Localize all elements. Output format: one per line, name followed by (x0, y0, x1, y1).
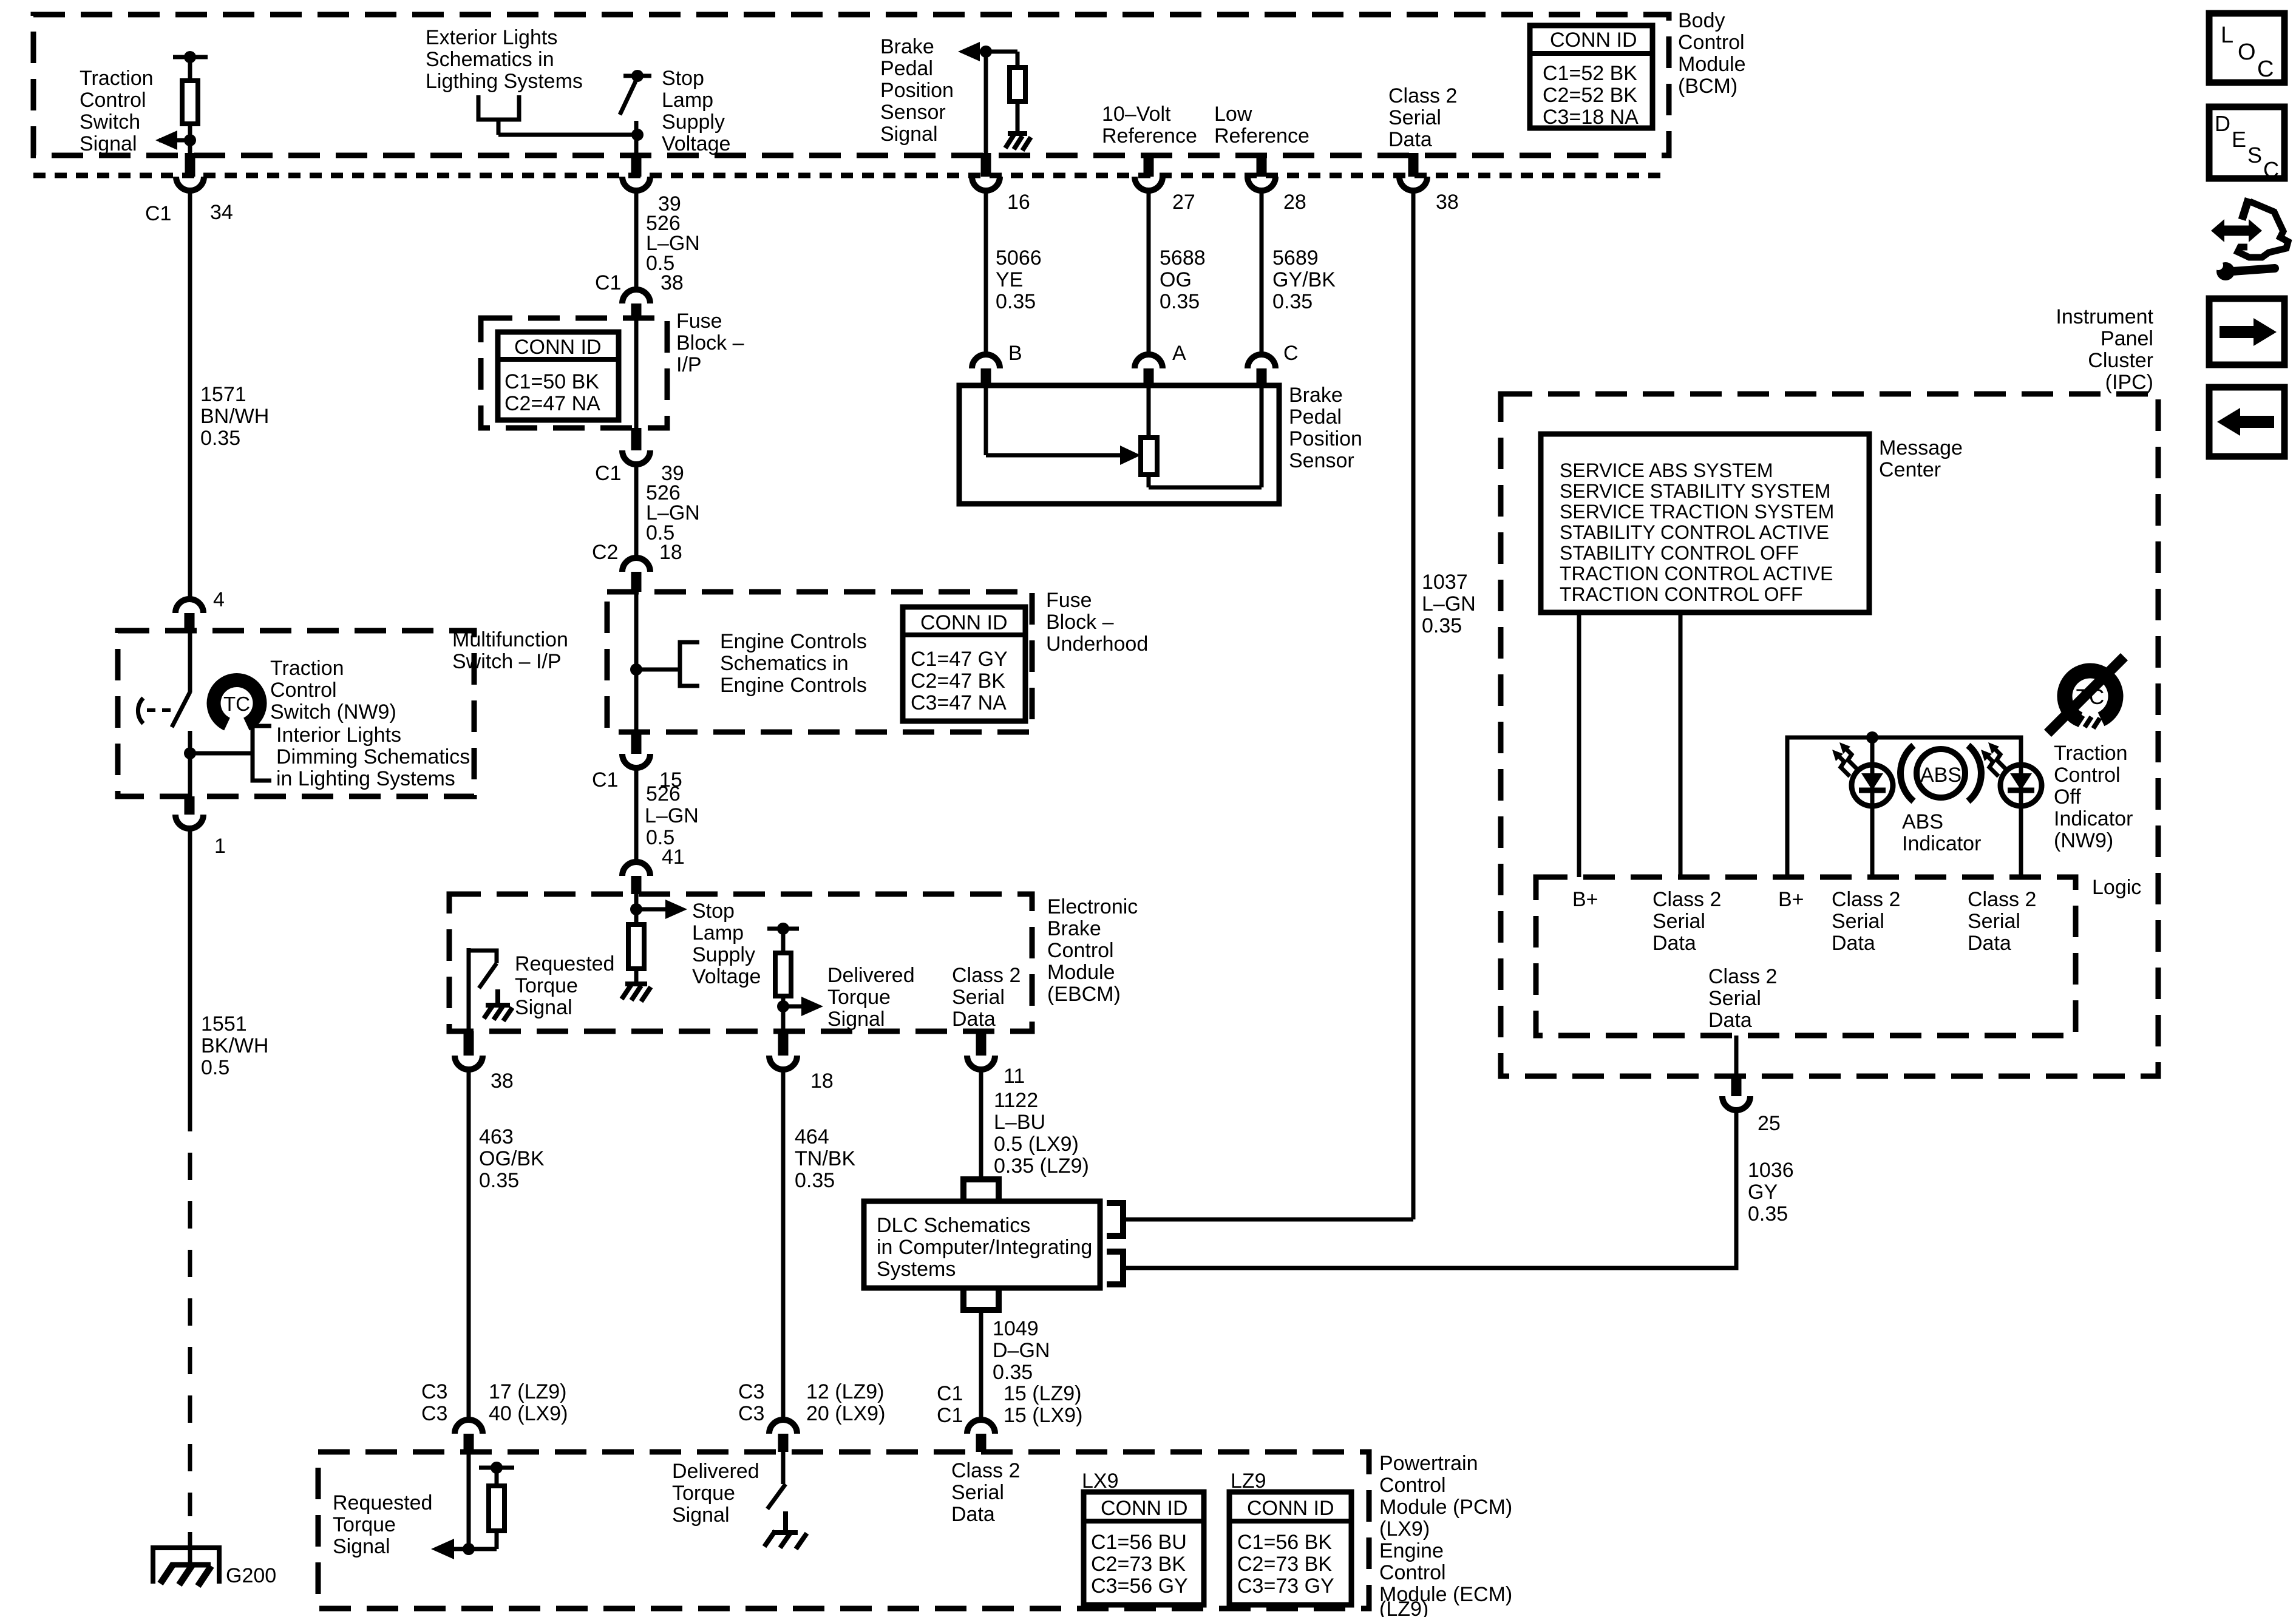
svg-text:C2: C2 (592, 541, 618, 564)
svg-text:SERVICE ABS SYSTEM: SERVICE ABS SYSTEM (1560, 459, 1773, 481)
svg-text:0.35: 0.35 (1748, 1202, 1788, 1225)
svg-text:CONN ID: CONN ID (1550, 29, 1637, 52)
label Fuse Block - I/P (676, 310, 744, 376)
svg-text:TRACTION CONTROL ACTIVE: TRACTION CONTROL ACTIVE (1560, 563, 1833, 585)
svg-text:Serial: Serial (1832, 910, 1884, 933)
svg-text:Off: Off (2054, 785, 2081, 808)
connector pin 15/15 C1 (PCM) (937, 1382, 1082, 1452)
svg-text:15 (LZ9): 15 (LZ9) (1004, 1382, 1082, 1405)
svg-text:Serial: Serial (1708, 987, 1761, 1010)
svg-text:Requested: Requested (333, 1491, 432, 1514)
svg-text:Signal: Signal (80, 132, 137, 155)
ground chassis (EBCM stop lamp) (622, 984, 651, 1002)
svg-text:Torque: Torque (672, 1482, 735, 1505)
node B+ (logic) (1572, 888, 1598, 911)
svg-text:C1: C1 (937, 1404, 963, 1427)
svg-text:BK/WH: BK/WH (201, 1034, 268, 1057)
svg-text:Signal: Signal (515, 996, 572, 1019)
wire 526 L-GN (BCM 39 to fuse block I/P) (636, 189, 700, 291)
svg-text:Indicator: Indicator (1902, 832, 1981, 855)
wire 1036 GY (IPC 25 to DLC) (1748, 1159, 1794, 1225)
arrow traction control switch signal (155, 131, 196, 150)
label Message Center (1879, 436, 1963, 481)
CONN ID table (fuse block underhood) (903, 607, 1025, 721)
wire message center class 2 serial data (1679, 612, 1683, 877)
svg-text:Schematics in: Schematics in (720, 652, 849, 675)
label Body Control Module (BCM) (1678, 9, 1746, 98)
svg-text:Lamp: Lamp (692, 921, 744, 944)
node class 2 serial data (logic left) (1652, 888, 1721, 955)
svg-text:41: 41 (662, 846, 685, 869)
connector pin A (brake pedal position sensor) (1135, 342, 1186, 385)
svg-text:SERVICE STABILITY SYSTEM: SERVICE STABILITY SYSTEM (1560, 480, 1830, 502)
wire 526 L-GN (underhood to EBCM 41) (636, 767, 699, 863)
connector pin 11 (EBCM out) (967, 1031, 1025, 1088)
icon ABS indicator (1901, 745, 1982, 801)
svg-text:Requested: Requested (515, 952, 614, 975)
svg-text:DLC Schematics: DLC Schematics (877, 1214, 1030, 1237)
arrow requested torque signal (PCM) (431, 1539, 475, 1559)
svg-text:D: D (2215, 111, 2230, 136)
label Brake Pedal Position Sensor Signal (880, 35, 954, 146)
svg-text:TC: TC (223, 693, 250, 715)
CONN ID table (BCM) (1530, 25, 1652, 129)
wire 5689 GY/BK (BCM 28 to sensor C) (1262, 189, 1336, 356)
svg-text:Data: Data (1708, 1009, 1752, 1032)
svg-text:464: 464 (795, 1125, 829, 1148)
svg-text:1122: 1122 (994, 1089, 1038, 1112)
arrows LED emission (ABS indicator) (1832, 742, 1857, 776)
svg-text:Control: Control (1678, 31, 1745, 54)
svg-text:B+: B+ (1778, 888, 1804, 911)
svg-text:Class 2: Class 2 (1652, 888, 1721, 911)
connector pin 39 C1 (fuse block I/P out) (595, 428, 684, 485)
svg-text:E: E (2232, 127, 2246, 152)
svg-text:Voltage: Voltage (662, 132, 730, 155)
connector pin 17/40 C3 (PCM) (421, 1380, 568, 1452)
svg-text:Data: Data (1968, 932, 2011, 955)
label Class 2 Serial Data (EBCM) (952, 964, 1021, 1031)
svg-text:Control: Control (1379, 1474, 1446, 1497)
svg-text:0.35: 0.35 (200, 427, 240, 450)
label Fuse Block - Underhood (1046, 589, 1148, 656)
potentiometer (brake pedal position sensor) (986, 385, 1262, 487)
label LZ9 (1231, 1470, 1266, 1493)
wire 1037 L-GN (BCM 38 class 2 serial data) (1413, 189, 1476, 1219)
label Delivered Torque Signal (PCM) (672, 1460, 759, 1527)
label Stop Lamp Supply Voltage (BCM) (662, 67, 730, 155)
svg-text:(IPC): (IPC) (2105, 371, 2153, 394)
svg-text:in Computer/Integrating: in Computer/Integrating (877, 1236, 1092, 1259)
svg-text:Position: Position (1289, 427, 1362, 450)
connector pin 18 (EBCM out) (769, 1031, 834, 1093)
label Class 2 Serial Data (PCM) (951, 1459, 1020, 1526)
svg-text:0.5: 0.5 (201, 1056, 229, 1079)
svg-text:Data: Data (952, 1008, 996, 1031)
svg-text:Panel: Panel (2101, 327, 2153, 350)
svg-text:LX9: LX9 (1082, 1470, 1119, 1493)
svg-text:Traction: Traction (80, 67, 154, 90)
svg-text:38: 38 (1436, 191, 1459, 214)
svg-text:Interior Lights: Interior Lights (276, 724, 401, 747)
svg-text:Serial: Serial (1388, 106, 1441, 129)
svg-text:Brake: Brake (1289, 384, 1343, 407)
resistor (stop lamp supply, EBCM) (628, 924, 644, 982)
icon diagnostic tool (arrow and wrench) (2211, 198, 2288, 280)
wire class 2 serial data (DLC to IPC 25) (1123, 1110, 1736, 1268)
svg-text:C1=52 BK: C1=52 BK (1543, 62, 1637, 85)
svg-text:Class 2: Class 2 (1968, 888, 2036, 911)
svg-text:C2=52 BK: C2=52 BK (1543, 84, 1637, 107)
svg-text:Data: Data (1652, 932, 1696, 955)
CONN ID table (fuse block I/P) (498, 332, 619, 420)
ground chassis (BCM internal) (1005, 134, 1031, 151)
svg-text:Stop: Stop (662, 67, 704, 90)
svg-text:Multifunction: Multifunction (452, 628, 568, 651)
svg-text:Class 2: Class 2 (952, 964, 1021, 987)
svg-text:(EBCM): (EBCM) (1047, 983, 1121, 1006)
wire 463 OG/BK (EBCM 38 to PCM) (469, 1068, 545, 1420)
bracket to engine controls schematics (630, 642, 699, 686)
label Delivered Torque Signal (EBCM) (827, 964, 915, 1031)
svg-text:C: C (2263, 157, 2279, 182)
svg-text:Class 2: Class 2 (1388, 84, 1457, 107)
svg-text:Reference: Reference (1214, 124, 1309, 147)
svg-text:(BCM): (BCM) (1678, 75, 1737, 98)
label Exterior Lights Schematics in Ligthing Systems (426, 26, 583, 93)
svg-text:Serial: Serial (952, 986, 1005, 1009)
svg-text:Delivered: Delivered (827, 964, 915, 987)
svg-text:Fuse: Fuse (676, 310, 722, 333)
connector pin 16 (BCM) (972, 153, 1030, 214)
svg-text:B+: B+ (1572, 888, 1598, 911)
svg-text:STABILITY CONTROL OFF: STABILITY CONTROL OFF (1560, 542, 1799, 564)
svg-text:Indicator: Indicator (2054, 807, 2133, 830)
svg-text:Ligthing Systems: Ligthing Systems (426, 70, 583, 93)
label Stop Lamp Supply Voltage (EBCM) (692, 900, 761, 988)
CONN ID table (PCM LX9) (1084, 1492, 1204, 1605)
arrow delivered torque signal (EBCM) (777, 997, 823, 1016)
bracket to exterior lights schematics (478, 95, 636, 135)
svg-text:C1=50 BK: C1=50 BK (504, 370, 599, 393)
svg-text:TRACTION CONTROL OFF: TRACTION CONTROL OFF (1560, 583, 1803, 605)
svg-text:4: 4 (213, 588, 225, 611)
label Electronic Brake Control Module (EBCM) (1047, 895, 1138, 1006)
svg-text:Powertrain: Powertrain (1379, 1452, 1478, 1475)
svg-text:34: 34 (210, 201, 233, 224)
svg-text:ABS: ABS (1920, 764, 1961, 787)
svg-text:Schematics in: Schematics in (426, 48, 554, 71)
svg-text:5689: 5689 (1272, 246, 1319, 269)
arrow stop lamp supply voltage (EBCM) (630, 894, 687, 924)
label Traction Control Switch Signal (80, 67, 154, 155)
LED ABS indicator lamp (1852, 737, 1893, 877)
label Requested Torque Signal (PCM) (333, 1491, 432, 1558)
svg-text:20 (LX9): 20 (LX9) (806, 1402, 885, 1425)
svg-text:Class 2: Class 2 (1708, 965, 1777, 988)
svg-text:A: A (1172, 342, 1186, 365)
svg-text:in Lighting Systems: in Lighting Systems (276, 767, 455, 790)
svg-text:LZ9: LZ9 (1231, 1470, 1266, 1493)
label ABS Indicator (1902, 810, 1981, 855)
svg-text:Engine: Engine (1379, 1539, 1444, 1562)
svg-text:Supply: Supply (662, 110, 725, 134)
svg-text:Instrument: Instrument (2056, 305, 2153, 328)
connector pin 28 (BCM) (1248, 153, 1306, 214)
label Engine Controls Schematics in Engine Controls (720, 630, 867, 697)
connector pin 15 C1 (fuse block underhood out) (592, 732, 682, 792)
svg-text:Supply: Supply (692, 943, 755, 966)
svg-text:Engine Controls: Engine Controls (720, 674, 867, 697)
label Interior Lights Dimming Schematics in Lighting Systems (276, 724, 470, 790)
svg-text:(NW9): (NW9) (2054, 829, 2113, 852)
svg-text:C1: C1 (595, 462, 621, 485)
connector pin 27 (BCM) (1135, 153, 1195, 214)
svg-text:Position: Position (880, 79, 954, 102)
resistor delivered torque (EBCM) (767, 923, 799, 1031)
module box BCM (Body Control Module) (33, 15, 1669, 155)
svg-text:Data: Data (951, 1503, 995, 1526)
connector pin 1 (TC switch) (175, 796, 226, 858)
svg-text:12 (LZ9): 12 (LZ9) (806, 1380, 885, 1403)
icon TC (traction control switch) (214, 680, 260, 724)
svg-text:Sensor: Sensor (1289, 449, 1354, 472)
svg-text:Exterior Lights: Exterior Lights (426, 26, 557, 49)
svg-text:Torque: Torque (515, 974, 578, 997)
module box PCM (Powertrain Control Module) (318, 1452, 1369, 1609)
svg-text:Traction: Traction (270, 657, 344, 680)
svg-text:Stop: Stop (692, 900, 735, 923)
svg-text:TN/BK: TN/BK (795, 1147, 855, 1170)
svg-text:Brake: Brake (880, 35, 934, 58)
svg-text:11: 11 (1004, 1065, 1025, 1088)
svg-text:Signal: Signal (672, 1503, 730, 1527)
svg-text:Delivered: Delivered (672, 1460, 759, 1483)
svg-text:C1: C1 (595, 271, 621, 294)
wire 464 TN/BK (EBCM 18 to PCM) (783, 1068, 855, 1420)
svg-text:Data: Data (1388, 128, 1432, 151)
svg-text:Module (PCM): Module (PCM) (1379, 1496, 1512, 1519)
svg-text:GY: GY (1748, 1181, 1778, 1204)
icon arrow left box (2209, 387, 2284, 456)
resistor (brake pedal position sensor signal, BCM) (986, 52, 1025, 153)
svg-text:C2=73 BK: C2=73 BK (1091, 1553, 1186, 1576)
svg-text:G200: G200 (226, 1564, 276, 1587)
switch stop lamp (brake pedal switch, BCM) (620, 70, 651, 153)
module box EBCM (Electronic Brake Control Module) (449, 894, 1032, 1031)
wire 1551 BK/WH (TC switch to G200) (190, 827, 268, 1516)
component box brake pedal position sensor (959, 385, 1279, 504)
label Brake Pedal Position Sensor (1289, 384, 1362, 472)
connector pin 41 (EBCM) (622, 846, 685, 894)
svg-text:Block –: Block – (676, 331, 744, 354)
svg-text:Block –: Block – (1046, 611, 1114, 634)
svg-text:0.35 (LZ9): 0.35 (LZ9) (994, 1154, 1089, 1178)
svg-text:Control: Control (270, 679, 337, 702)
svg-text:Engine Controls: Engine Controls (720, 630, 867, 653)
svg-text:ABS: ABS (1902, 810, 1943, 833)
svg-text:CONN ID: CONN ID (1101, 1497, 1188, 1520)
svg-text:C2=47 BK: C2=47 BK (911, 670, 1005, 693)
node class 2 serial data (logic right) (1968, 888, 2036, 955)
svg-text:Control: Control (1047, 939, 1114, 962)
svg-text:Center: Center (1879, 458, 1941, 481)
svg-text:1049: 1049 (993, 1317, 1039, 1340)
label LX9 (1082, 1470, 1119, 1493)
switch traction control (NW9) (138, 631, 190, 796)
svg-text:0.35: 0.35 (1272, 290, 1313, 313)
svg-text:Fuse: Fuse (1046, 589, 1092, 612)
svg-text:15 (LX9): 15 (LX9) (1004, 1404, 1082, 1427)
label Traction Control Switch (NW9) (270, 657, 396, 724)
label Multifunction Switch - I/P (452, 628, 568, 673)
connector pin 38 (BCM) (1399, 153, 1459, 214)
svg-text:Module: Module (1678, 53, 1746, 76)
svg-text:SERVICE TRACTION SYSTEM: SERVICE TRACTION SYSTEM (1560, 501, 1834, 523)
connector pin 34 C1 (BCM) (145, 153, 233, 225)
svg-text:CONN ID: CONN ID (920, 611, 1008, 634)
wire 1571 BN/WH (pin 34 to TC switch) (190, 189, 269, 600)
svg-text:C1: C1 (937, 1382, 963, 1405)
bracket DLC bottom connector (963, 1288, 999, 1310)
svg-text:Pedal: Pedal (1289, 405, 1342, 429)
icon LOC box (2209, 13, 2284, 83)
svg-text:STABILITY CONTROL ACTIVE: STABILITY CONTROL ACTIVE (1560, 521, 1829, 543)
switch requested torque signal (EBCM) (469, 948, 497, 1031)
CONN ID table (PCM LZ9) (1229, 1492, 1351, 1605)
svg-text:(LZ9): (LZ9) (1379, 1598, 1428, 1617)
resistor requested torque (PCM) (452, 1452, 514, 1549)
svg-text:463: 463 (479, 1125, 514, 1148)
svg-text:Dimming Schematics: Dimming Schematics (276, 745, 470, 768)
svg-text:1571: 1571 (200, 383, 246, 406)
svg-text:Switch – I/P: Switch – I/P (452, 650, 562, 673)
resistor (traction control switch signal pull-up, BCM) (173, 51, 208, 153)
svg-text:18: 18 (659, 541, 682, 564)
svg-text:L–GN: L–GN (1422, 592, 1476, 615)
label Powertrain Control Module (PCM)/(LX9)/Engine Control Module (ECM)/(LZ9) (1379, 1452, 1512, 1617)
svg-text:C3=47 NA: C3=47 NA (911, 691, 1007, 714)
svg-text:526: 526 (646, 782, 681, 805)
svg-text:CONN ID: CONN ID (514, 336, 602, 359)
svg-text:16: 16 (1007, 191, 1030, 214)
icon DESC box (2209, 107, 2284, 182)
bracket DLC right bottom connector (1107, 1252, 1123, 1284)
module box IPC (Instrument Panel Cluster) (1501, 394, 2158, 1076)
ground G200 (153, 1532, 276, 1587)
svg-text:Sensor: Sensor (880, 101, 946, 124)
connector pin 18 C2 (fuse block underhood) (592, 541, 682, 592)
svg-text:Serial: Serial (951, 1481, 1004, 1504)
arrow brake pedal position sensor signal (958, 42, 1017, 61)
svg-text:0.5 (LX9): 0.5 (LX9) (994, 1133, 1079, 1156)
svg-text:Reference: Reference (1102, 124, 1197, 147)
module box Traction Control Switch (NW9) (118, 631, 474, 796)
svg-text:Signal: Signal (827, 1008, 885, 1031)
svg-text:Signal: Signal (333, 1535, 390, 1558)
label Traction Control Off Indicator (NW9) (2054, 742, 2133, 852)
svg-text:C3: C3 (421, 1380, 447, 1403)
module box Fuse Block - Underhood (607, 592, 1032, 732)
svg-text:OG: OG (1160, 268, 1192, 291)
label Logic (2092, 876, 2141, 899)
icon TC off (slashed) (2048, 657, 2124, 733)
svg-text:Serial: Serial (1968, 910, 2020, 933)
arrows LED emission (TC off indicator) (1981, 742, 2006, 776)
connector pin C (brake pedal position sensor) (1248, 342, 1299, 385)
svg-text:Lamp: Lamp (662, 89, 713, 112)
svg-text:Data: Data (1832, 932, 1875, 955)
svg-text:18: 18 (810, 1070, 834, 1093)
svg-text:Traction: Traction (2054, 742, 2128, 765)
node class 2 serial data (pin 25) (1708, 965, 1777, 1032)
label Requested Torque Signal (EBCM) (515, 952, 614, 1019)
module box Fuse Block - I/P (481, 318, 667, 428)
bracket DLC top connector (963, 1179, 999, 1201)
wire 1049 D-GN (DLC to PCM) (981, 1310, 1050, 1420)
svg-text:0.35: 0.35 (996, 290, 1036, 313)
svg-text:Message: Message (1879, 436, 1963, 459)
wire 5688 OG (BCM 27 to sensor A) (1149, 189, 1206, 356)
svg-text:Torque: Torque (827, 986, 891, 1009)
svg-text:OG/BK: OG/BK (479, 1147, 545, 1170)
LED traction control off indicator lamp (2000, 765, 2042, 806)
svg-text:O: O (2238, 39, 2256, 65)
connector pin B (brake pedal position sensor) (972, 342, 1022, 385)
svg-text:C3: C3 (421, 1402, 447, 1425)
svg-text:C3: C3 (738, 1402, 764, 1425)
svg-text:Brake: Brake (1047, 917, 1101, 940)
component box DLC Schematics in Computer/Integrating Systems (864, 1201, 1100, 1288)
svg-text:0.35: 0.35 (1160, 290, 1200, 313)
ground chassis (EBCM requested torque) (484, 989, 512, 1021)
node class 2 serial data (logic middle) (1832, 888, 1900, 955)
svg-text:GY/BK: GY/BK (1272, 268, 1336, 291)
svg-text:40 (LX9): 40 (LX9) (489, 1402, 568, 1425)
module box Logic (IPC) (1536, 877, 2076, 1036)
svg-text:L–GN: L–GN (645, 804, 699, 827)
svg-text:C: C (2257, 56, 2274, 82)
svg-text:38: 38 (491, 1070, 514, 1093)
svg-text:Signal: Signal (880, 123, 938, 146)
svg-text:Underhood: Underhood (1046, 632, 1148, 656)
svg-text:C2=73 BK: C2=73 BK (1237, 1553, 1332, 1576)
svg-text:CONN ID: CONN ID (1247, 1497, 1334, 1520)
svg-text:C1=56 BU: C1=56 BU (1091, 1531, 1187, 1554)
svg-text:C3: C3 (738, 1380, 764, 1403)
wire 526 L-GN (fuse I/P to underhood) (636, 463, 700, 559)
label Class 2 Serial Data (BCM) (1388, 84, 1457, 151)
svg-text:5066: 5066 (996, 246, 1042, 269)
label Instrument Panel Cluster (IPC) (2056, 305, 2153, 394)
svg-text:28: 28 (1283, 191, 1306, 214)
svg-text:B: B (1008, 342, 1022, 365)
svg-text:1: 1 (214, 835, 226, 858)
svg-text:Electronic: Electronic (1047, 895, 1138, 918)
svg-text:Serial: Serial (1652, 910, 1705, 933)
svg-text:Control: Control (2054, 764, 2121, 787)
svg-text:0.35: 0.35 (795, 1169, 835, 1192)
svg-text:Systems: Systems (877, 1258, 956, 1281)
svg-text:1036: 1036 (1748, 1159, 1794, 1182)
connector pin 12/20 C3 (PCM) (738, 1380, 885, 1452)
wire class 2 serial data (DLC to BCM 38) (1123, 1218, 1413, 1222)
svg-text:Class 2: Class 2 (1832, 888, 1900, 911)
connector pin 4 (TC switch) (175, 588, 225, 631)
svg-text:25: 25 (1758, 1112, 1781, 1135)
svg-text:27: 27 (1172, 191, 1195, 214)
svg-text:5688: 5688 (1160, 246, 1206, 269)
